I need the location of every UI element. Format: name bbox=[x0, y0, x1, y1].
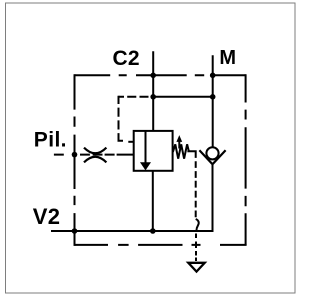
drain line (dashed) lower run to tank bbox=[195, 234, 197, 262]
node Pil. line at envelope left edge bbox=[72, 152, 78, 158]
svg-text:M: M bbox=[219, 47, 236, 69]
svg-text:V2: V2 bbox=[33, 204, 61, 229]
wire check valve outlet down to V2 wire bbox=[212, 164, 214, 232]
node valve outlet at V2 wire bbox=[150, 228, 156, 234]
valve envelope right edge (dashed) bbox=[245, 74, 247, 245]
drain line lead dash bbox=[187, 150, 188, 152]
svg-text:C2: C2 bbox=[113, 47, 140, 70]
pilot line (dashed) horizontal run from C2 branch bbox=[119, 96, 154, 98]
relief valve internal flow arrowhead bbox=[140, 162, 151, 170]
wire M port line down to check valve inlet bbox=[212, 55, 214, 147]
wire C2 port line down to valve inlet bbox=[152, 51, 154, 131]
check valve seat right arm bbox=[213, 150, 226, 164]
svg-text:Pil.: Pil. bbox=[34, 128, 67, 151]
tank symbol bbox=[188, 263, 204, 272]
orifice restrictor upper arc bbox=[84, 148, 106, 154]
valve envelope bottom edge (dashed) bbox=[75, 244, 247, 246]
spring adjustment arrowhead bbox=[176, 135, 182, 142]
wire V2 horizontal line bbox=[51, 230, 214, 232]
drain line hop over V2 wire bbox=[196, 219, 199, 231]
node C2 line at link wire bbox=[150, 94, 156, 100]
check valve seat left arm bbox=[199, 150, 212, 164]
wire valve upper pilot stub bbox=[128, 141, 134, 143]
wire linking C2 branch to M branch bbox=[153, 96, 213, 98]
node V2 wire at envelope left edge bbox=[72, 228, 78, 234]
valve envelope top edge (dashed) bbox=[75, 74, 246, 76]
drain line (dashed) vertical run bbox=[195, 161, 197, 217]
node M line at link wire bbox=[210, 94, 216, 100]
relief valve internal flow path line bbox=[145, 131, 147, 164]
spring of relief valve bbox=[173, 144, 189, 158]
orifice restrictor lower arc bbox=[84, 157, 106, 163]
spring adjustment arrow shaft bbox=[178, 141, 180, 149]
relief valve body square bbox=[134, 131, 173, 171]
valve envelope left edge (dashed) bbox=[74, 74, 76, 246]
wire valve outlet down to V2 wire bbox=[152, 171, 154, 231]
node M line at envelope top bbox=[210, 73, 216, 79]
node C2 line at envelope top bbox=[150, 73, 156, 79]
pilot line Pil. (dashed) from port through orifice to valve lower pilot port bbox=[54, 154, 135, 156]
pilot line corner at valve upper pilot port bbox=[119, 140, 124, 141]
check valve circle bbox=[206, 147, 218, 159]
drain line corner from spring chamber bbox=[189, 151, 196, 158]
pilot line (dashed) vertical run down to valve upper pilot port bbox=[118, 96, 120, 141]
